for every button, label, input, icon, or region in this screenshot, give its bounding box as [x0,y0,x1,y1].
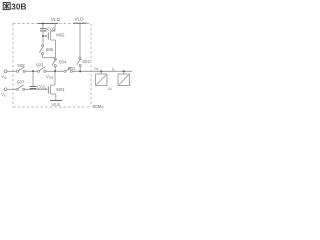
svg-text:30B: 30B [11,2,26,11]
svg-text:S07: S07 [17,80,25,85]
wire S01 to right edge [73,70,133,72]
input terminal Vx [4,88,7,91]
VLD rail left [38,23,58,25]
wire S03 to S01, node Vout [46,70,64,72]
switch S01 [64,67,72,72]
wire S08 to S03 [25,70,37,72]
wire junction to S04 [43,57,56,59]
node dot S02 join [79,70,81,72]
switch S06 [39,44,43,57]
svg-text:S01: S01 [68,66,76,71]
load box 2 [123,71,125,74]
switch S03 [37,67,46,72]
capacitor C01 [42,24,44,29]
node dot C02 tap [32,70,34,72]
svg-text:S03: S03 [36,62,44,67]
VLS rail [50,100,62,102]
svg-text:VLD: VLD [74,17,84,22]
svg-text:M01: M01 [56,87,65,92]
figure title 図30B [3,3,10,10]
svg-text:41: 41 [108,86,113,91]
wire VLD to S02 [79,23,81,57]
node dot on rail [42,22,44,24]
wire C01 to switch [42,31,44,44]
svg-text:60MP: 60MP [93,104,105,110]
svg-text:S06: S06 [46,47,54,52]
transistor M01 [48,71,55,100]
switch S08 [16,67,25,72]
node dot box2 [123,70,125,72]
switch S04 [52,58,56,71]
svg-text:Vin: Vin [1,74,7,80]
transistor M02 [43,24,55,58]
capacitor C02 [32,71,34,86]
svg-text:DL: DL [94,66,100,71]
svg-text:S04: S04 [59,60,67,65]
svg-text:Vout: Vout [46,74,53,80]
svg-text:M02: M02 [56,32,65,37]
svg-text:VLD: VLD [51,17,61,22]
svg-text:VLS: VLS [51,102,60,107]
svg-text:C02: C02 [37,84,45,89]
input terminal Vin [4,70,7,73]
wire Vin to S08 [7,70,16,72]
wire S07 to M01 gate [25,88,45,90]
dashed block boundary 60M [13,24,91,108]
node dot gate tap M02 [42,35,44,37]
switch S07 [16,85,25,90]
svg-text:Vx: Vx [1,92,6,98]
wire Vx to S07 [7,88,16,90]
load box 1 [100,71,102,74]
switch S02 [77,58,81,72]
svg-text:S02: S02 [82,59,90,64]
node dot box1 [100,70,102,72]
svg-text:S08: S08 [17,63,25,68]
